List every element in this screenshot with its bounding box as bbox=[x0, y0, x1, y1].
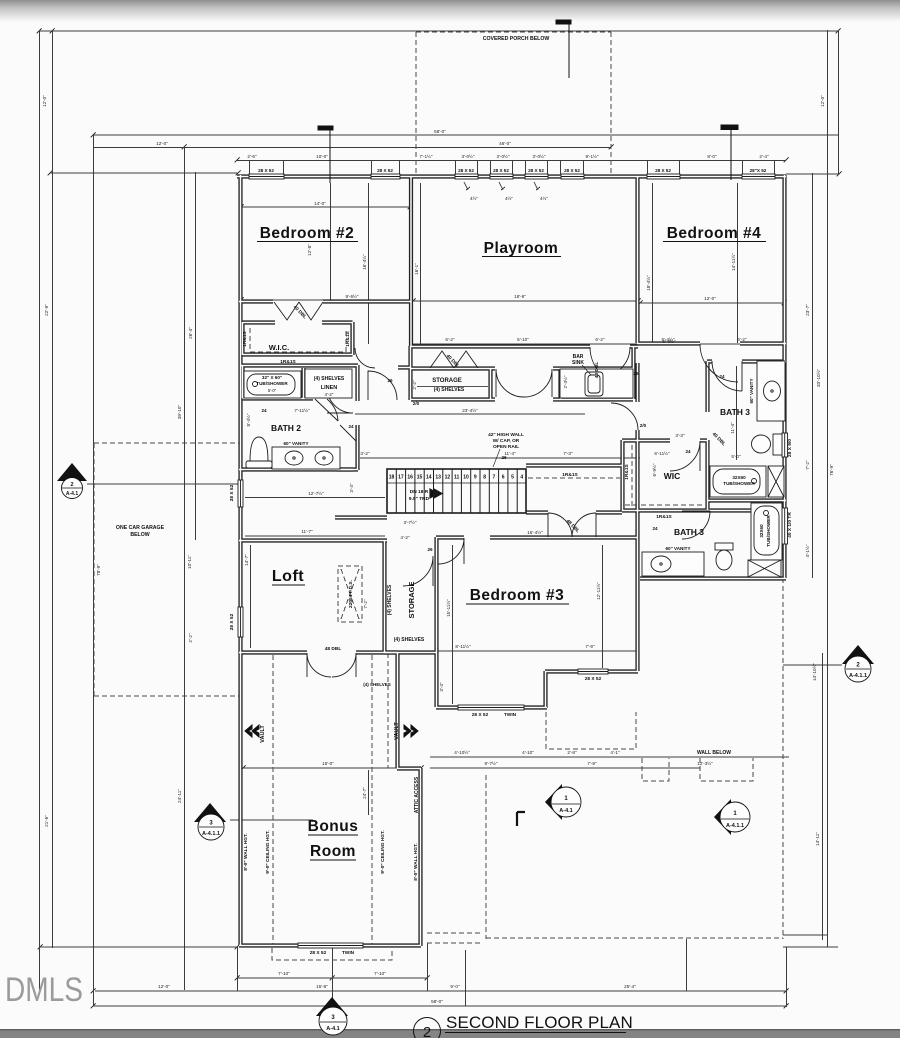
svg-text:9'-0" CEILING HGT.: 9'-0" CEILING HGT. bbox=[380, 830, 386, 873]
svg-text:11'-4": 11'-4" bbox=[504, 451, 516, 456]
dashed pds diagonals bbox=[341, 569, 359, 619]
dim line bottom 58-0 bbox=[93, 1005, 786, 1007]
svg-text:60" VANITY: 60" VANITY bbox=[665, 546, 690, 551]
dim line bottom 12-0 15-8 row bbox=[95, 990, 786, 992]
dashed bonus nook vertical bbox=[387, 653, 389, 768]
dim interior vertical bedroom4 14-11 bbox=[737, 183, 739, 343]
door arc loft bonus double bbox=[307, 653, 356, 677]
door arc wic right bbox=[670, 441, 700, 471]
svg-text:A-4.1: A-4.1 bbox=[326, 1026, 339, 1032]
svg-text:7'-9": 7'-9" bbox=[585, 644, 595, 649]
dim line left fourth vertical bbox=[184, 146, 186, 990]
svg-text:8: 8 bbox=[483, 475, 486, 481]
svg-text:1R&1S: 1R&1S bbox=[242, 330, 248, 346]
svg-text:BATH 2: BATH 2 bbox=[271, 423, 301, 433]
svg-text:24'-7": 24'-7" bbox=[362, 787, 367, 799]
svg-text:28 X 52: 28 X 52 bbox=[258, 168, 274, 173]
svg-text:A-4.1: A-4.1 bbox=[66, 491, 78, 497]
dim line right horizontal at wall top bbox=[786, 173, 839, 175]
svg-text:28 X 52: 28 X 52 bbox=[655, 168, 671, 173]
svg-text:DMLS: DMLS bbox=[5, 971, 83, 1009]
window leader marks playroom bbox=[464, 182, 540, 190]
fixture vanity bath3 top bbox=[757, 361, 785, 421]
dim line left second vertical bbox=[52, 30, 54, 948]
door arc bedroom3 entry bbox=[438, 538, 464, 564]
svg-text:Bedroom #3: Bedroom #3 bbox=[470, 587, 565, 604]
door arc hall closet 48dbl bbox=[548, 513, 596, 537]
stairs dn arrow bbox=[430, 489, 442, 498]
dim interior vertical bedroom3 12-11 bbox=[602, 545, 604, 668]
dim vertical bath3top 11-4 bbox=[736, 366, 738, 460]
svg-text:12'-0": 12'-0" bbox=[820, 95, 825, 107]
svg-text:14'-11½": 14'-11½" bbox=[730, 253, 736, 271]
dim line right corner vertical bbox=[838, 30, 840, 174]
dim line marker leader right bbox=[783, 664, 842, 666]
svg-text:28 X 52: 28 X 52 bbox=[493, 168, 509, 173]
door bath2 inner diagonal bbox=[340, 425, 356, 441]
svg-text:A-4.1: A-4.1 bbox=[559, 808, 572, 814]
svg-text:4'-2": 4'-2" bbox=[325, 392, 334, 397]
door arc storage mid bbox=[403, 556, 433, 586]
dashed garage left bbox=[93, 443, 95, 696]
svg-text:2'-2": 2'-2" bbox=[412, 380, 417, 390]
svg-text:18: 18 bbox=[389, 475, 395, 481]
door arc bedroom4 hall bbox=[700, 344, 738, 382]
svg-text:10'-0": 10'-0" bbox=[316, 154, 328, 159]
svg-text:3'-2": 3'-2" bbox=[360, 451, 370, 456]
svg-text:26: 26 bbox=[427, 547, 433, 552]
match line mark lower center bbox=[517, 812, 525, 826]
svg-text:28 X 52: 28 X 52 bbox=[528, 168, 544, 173]
svg-text:SINK: SINK bbox=[572, 360, 584, 366]
svg-text:2'-4": 2'-4" bbox=[759, 154, 769, 159]
svg-text:7'-11½": 7'-11½" bbox=[294, 407, 310, 413]
dashed wic b2 shelf bbox=[250, 328, 346, 352]
svg-text:WALL BELOW: WALL BELOW bbox=[697, 750, 731, 756]
svg-text:23'-4½": 23'-4½" bbox=[462, 407, 478, 413]
dashed garage bottom bbox=[94, 695, 239, 697]
svg-text:A-4.1.1: A-4.1.1 bbox=[849, 673, 867, 679]
dashed covered porch left bbox=[415, 32, 417, 174]
svg-text:28 X 52: 28 X 52 bbox=[377, 168, 393, 173]
dim line playroom 18-9 bbox=[413, 300, 638, 302]
svg-text:26'-4": 26'-4" bbox=[188, 327, 193, 339]
svg-text:58'-0": 58'-0" bbox=[434, 129, 446, 134]
svg-text:3'-0½": 3'-0½" bbox=[462, 153, 475, 159]
svg-text:12'-0": 12'-0" bbox=[42, 95, 47, 107]
door arc b2 hall bbox=[368, 371, 397, 400]
dashed bonus ceiling break right bbox=[371, 655, 373, 944]
fixture linen closet bbox=[305, 369, 352, 398]
dim line right 76-9 vertical bbox=[827, 30, 829, 947]
dashed garage top bbox=[94, 442, 239, 444]
svg-text:12: 12 bbox=[445, 475, 451, 481]
dim interior vertical bedroom3 15-11 bbox=[452, 545, 454, 704]
fixture tub bath3 bottom vertical bbox=[751, 503, 782, 560]
dashed right lower small lines bbox=[427, 932, 480, 934]
svg-text:8'-11½": 8'-11½" bbox=[455, 643, 471, 649]
window bedroom3 twin bbox=[458, 705, 524, 710]
svg-text:12'-0": 12'-0" bbox=[704, 296, 716, 301]
svg-text:4: 4 bbox=[520, 475, 523, 481]
window b2 w2 bbox=[371, 174, 400, 179]
svg-text:W/ CAP, OR: W/ CAP, OR bbox=[493, 438, 520, 444]
svg-text:5'-0": 5'-0" bbox=[268, 388, 277, 393]
dashed wall below notch2 bbox=[700, 758, 753, 781]
svg-text:18'-4½": 18'-4½" bbox=[645, 275, 651, 291]
svg-text:STORAGE: STORAGE bbox=[432, 378, 462, 384]
svg-text:2: 2 bbox=[70, 482, 73, 488]
svg-text:4'-10½": 4'-10½" bbox=[454, 749, 470, 755]
svg-text:3'-4": 3'-4" bbox=[439, 682, 444, 692]
svg-text:ATTIC ACCESS: ATTIC ACCESS bbox=[414, 776, 420, 813]
svg-text:10'-11": 10'-11" bbox=[187, 555, 192, 569]
svg-text:24: 24 bbox=[719, 374, 725, 379]
svg-text:28"X 52: 28"X 52 bbox=[750, 168, 767, 173]
svg-text:6: 6 bbox=[502, 475, 505, 481]
dim line bonus 15-0 bbox=[243, 767, 421, 769]
svg-text:28 X 52: 28 X 52 bbox=[472, 712, 489, 718]
svg-text:6'-2": 6'-2" bbox=[737, 337, 747, 342]
svg-text:STORAGE: STORAGE bbox=[407, 582, 416, 619]
svg-text:16'-1": 16'-1" bbox=[414, 263, 419, 275]
section marker 3 A-4.1 bottom bbox=[316, 997, 348, 1035]
svg-text:60" VANITY: 60" VANITY bbox=[749, 378, 754, 403]
dim line hall upper row bbox=[413, 343, 638, 345]
dim line bottom left bonus bbox=[40, 946, 237, 948]
dim line right lower 14-11 vertical bbox=[822, 653, 824, 940]
vault arrow left bbox=[245, 725, 266, 743]
svg-text:TUB/SHOWER: TUB/SHOWER bbox=[256, 381, 288, 386]
dim ext bonus corner down bbox=[237, 947, 239, 991]
fixture tub bath3 top bbox=[710, 466, 766, 497]
svg-text:5'-0": 5'-0" bbox=[731, 454, 741, 459]
door bifold storage top bbox=[430, 351, 478, 368]
dim ext bedroom3 down bbox=[427, 943, 429, 991]
svg-text:24: 24 bbox=[348, 424, 354, 429]
svg-text:VAULT: VAULT bbox=[260, 725, 266, 743]
svg-text:76'-9": 76'-9" bbox=[829, 464, 834, 476]
vault arrow right bbox=[394, 722, 418, 740]
svg-text:7'-9": 7'-9" bbox=[587, 761, 597, 766]
dim ext bottom x465 bbox=[465, 950, 467, 1006]
svg-text:(4) SHELVES: (4) SHELVES bbox=[434, 387, 465, 393]
dim ext bonus mid down bbox=[332, 947, 334, 1004]
svg-text:BATH 3: BATH 3 bbox=[720, 407, 750, 417]
svg-text:28 X 9/0: 28 X 9/0 bbox=[787, 439, 793, 457]
svg-text:11'-7": 11'-7" bbox=[301, 529, 313, 534]
svg-text:9'-1½": 9'-1½" bbox=[586, 153, 599, 159]
svg-text:22054 P.D.S.: 22054 P.D.S. bbox=[348, 580, 354, 608]
svg-text:32X60: 32X60 bbox=[759, 524, 764, 538]
dim interior vertical bonus 24-7 bbox=[368, 770, 370, 815]
window left wall w2 bbox=[238, 607, 243, 637]
svg-text:2: 2 bbox=[423, 1024, 431, 1038]
svg-text:2'-8": 2'-8" bbox=[567, 750, 577, 755]
svg-text:7'-10": 7'-10" bbox=[278, 971, 290, 976]
svg-text:3'-0½": 3'-0½" bbox=[533, 153, 546, 159]
svg-text:8'-0" WALL HGT.: 8'-0" WALL HGT. bbox=[413, 843, 419, 880]
svg-text:4'-10": 4'-10" bbox=[522, 750, 534, 755]
fixture toilet bath3 bottom bbox=[715, 543, 733, 550]
dim line bottom right hook2 bbox=[783, 946, 838, 948]
door arc playroom hall bbox=[590, 347, 630, 385]
svg-text:15'-0": 15'-0" bbox=[322, 761, 334, 766]
dim line bedroom4 12-0 bbox=[640, 302, 784, 304]
stairs rail inner line bbox=[387, 482, 526, 484]
dim line bottom 7-10 row bbox=[237, 977, 427, 979]
svg-text:Loft: Loft bbox=[272, 568, 304, 585]
svg-text:3'-3": 3'-3" bbox=[675, 433, 685, 438]
svg-text:13: 13 bbox=[435, 475, 441, 481]
svg-text:28 X 52: 28 X 52 bbox=[564, 168, 580, 173]
svg-text:LINEN: LINEN bbox=[321, 385, 338, 391]
svg-text:2/0: 2/0 bbox=[640, 423, 647, 428]
dashed wall below bottom bbox=[486, 937, 783, 939]
door arc bath3 bottom bbox=[682, 511, 710, 539]
dashed bonus ceiling break left bbox=[272, 655, 274, 944]
svg-text:ONE CAR GARAGE: ONE CAR GARAGE bbox=[116, 525, 165, 531]
dashed wall below notch bbox=[642, 758, 669, 781]
dim ext right bottom down bbox=[786, 947, 788, 1007]
svg-text:BELOW: BELOW bbox=[130, 532, 149, 538]
svg-text:4'-1": 4'-1" bbox=[610, 750, 620, 755]
dim interior vertical playroom right 18-4 bbox=[652, 183, 654, 343]
svg-text:9'-6½": 9'-6½" bbox=[346, 293, 359, 299]
fixture linen xbox bath3 top bbox=[768, 466, 784, 497]
dim line bottom right 14-11 hook bbox=[783, 934, 827, 936]
svg-text:TWIN: TWIN bbox=[504, 712, 517, 718]
svg-text:(4) SHELVES: (4) SHELVES bbox=[314, 376, 345, 382]
match line mark left bbox=[318, 126, 333, 183]
svg-text:6'-11½": 6'-11½" bbox=[654, 450, 670, 456]
fixture vanity bath3 bottom bbox=[642, 552, 704, 576]
svg-text:8'-0": 8'-0" bbox=[707, 154, 717, 159]
dim interior vertical loft 14-7 bbox=[250, 545, 252, 648]
svg-text:24: 24 bbox=[652, 526, 658, 531]
dim line marker leader bonus bbox=[230, 819, 313, 821]
dim line right 23-7 vertical bbox=[812, 173, 814, 578]
svg-text:12'-7½": 12'-7½" bbox=[308, 490, 324, 496]
window bedroom3 side bbox=[578, 669, 608, 674]
dim line bedroom2 9-6 bbox=[241, 299, 410, 301]
dim line wall below row 4-10 bbox=[430, 756, 789, 758]
svg-text:1R&1S: 1R&1S bbox=[280, 359, 296, 365]
svg-text:78'-9": 78'-9" bbox=[96, 564, 101, 576]
svg-text:46'-0": 46'-0" bbox=[499, 141, 511, 146]
door arc hall double mid bbox=[496, 369, 552, 397]
svg-text:14'-7": 14'-7" bbox=[244, 554, 249, 566]
stairs treads bbox=[396, 469, 517, 513]
svg-text:OPEN RAIL: OPEN RAIL bbox=[493, 444, 519, 450]
svg-text:14'-11": 14'-11" bbox=[815, 832, 820, 846]
top gray fade bar bbox=[0, 0, 900, 22]
svg-text:Room: Room bbox=[310, 843, 356, 860]
svg-text:3'-0½": 3'-0½" bbox=[497, 153, 510, 159]
dashed right lower small line2 bbox=[427, 942, 480, 944]
svg-text:60" VANITY: 60" VANITY bbox=[283, 441, 308, 446]
svg-text:26: 26 bbox=[633, 371, 639, 376]
svg-text:(4) SHELVES: (4) SHELVES bbox=[363, 682, 390, 687]
svg-text:16'-4½": 16'-4½" bbox=[527, 529, 543, 535]
dim line left third vertical bbox=[93, 134, 95, 1006]
door arc bedroom2 bifold bbox=[274, 302, 323, 320]
dim line left outer vertical bbox=[39, 30, 41, 990]
svg-text:25'-4": 25'-4" bbox=[624, 984, 636, 989]
dashed covered porch top bbox=[416, 31, 611, 33]
door arc bath3 top bbox=[712, 361, 742, 391]
dim line top horizontal full bbox=[39, 30, 838, 32]
svg-text:VAULT: VAULT bbox=[394, 722, 400, 740]
svg-text:18'-9": 18'-9" bbox=[514, 294, 526, 299]
svg-text:9'-0" CEILING HGT.: 9'-0" CEILING HGT. bbox=[265, 830, 271, 873]
svg-text:9: 9 bbox=[474, 475, 477, 481]
svg-text:28 X 52: 28 X 52 bbox=[229, 484, 235, 501]
svg-text:4½": 4½" bbox=[540, 195, 548, 201]
dashed wall below vertical left bbox=[485, 775, 487, 939]
svg-text:4'-1½": 4'-1½" bbox=[804, 544, 810, 557]
window right wall 40x10 bbox=[782, 508, 788, 544]
dim line bedroom2 14-0 bbox=[241, 206, 410, 208]
svg-text:5'-10": 5'-10" bbox=[517, 337, 529, 342]
dim line left fifth vertical bbox=[195, 172, 197, 540]
dashed wall below vertical right bbox=[782, 578, 784, 939]
svg-text:15: 15 bbox=[417, 475, 423, 481]
fixture bar sink counter bbox=[560, 369, 633, 398]
window playroom w1 bbox=[455, 174, 478, 179]
dim line loft 12-7 bbox=[245, 497, 385, 499]
fixture xbox bath3 bottom bbox=[748, 560, 781, 577]
svg-text:TUB/SHOWER: TUB/SHOWER bbox=[766, 515, 771, 547]
svg-text:WIC: WIC bbox=[664, 471, 681, 481]
dim line 22-9 left extension bbox=[50, 172, 238, 174]
svg-text:24: 24 bbox=[261, 408, 267, 413]
window playroom w3 bbox=[525, 174, 548, 179]
svg-text:7: 7 bbox=[493, 475, 496, 481]
svg-text:Bonus: Bonus bbox=[308, 818, 359, 835]
dashed bedroom3 SE box bbox=[546, 712, 636, 749]
svg-text:8'-0" WALL HGT.: 8'-0" WALL HGT. bbox=[243, 833, 249, 870]
window playroom w2 bbox=[490, 174, 513, 179]
svg-text:23'-7": 23'-7" bbox=[805, 304, 810, 316]
svg-text:32X60: 32X60 bbox=[732, 475, 746, 480]
svg-text:28 X 52: 28 X 52 bbox=[310, 950, 327, 956]
svg-text:3'-4": 3'-4" bbox=[349, 483, 354, 493]
svg-text:DN 18 R: DN 18 R bbox=[410, 489, 429, 495]
svg-text:58'-0": 58'-0" bbox=[431, 999, 443, 1004]
svg-text:6'-0½": 6'-0½" bbox=[663, 338, 676, 344]
svg-text:6'-9½": 6'-9½" bbox=[651, 463, 657, 476]
dim line bath corridor 23-4 bbox=[355, 413, 585, 415]
fixture toilet bath3 top bbox=[773, 434, 782, 455]
svg-text:10: 10 bbox=[463, 475, 469, 481]
svg-text:12'-8": 12'-8" bbox=[307, 244, 312, 256]
svg-text:2/0: 2/0 bbox=[413, 401, 420, 406]
fixture vanity bath2 bbox=[272, 447, 340, 469]
svg-text:TWIN: TWIN bbox=[342, 950, 355, 956]
svg-text:15'-11½": 15'-11½" bbox=[445, 599, 451, 617]
svg-text:(4) SHELVES: (4) SHELVES bbox=[394, 637, 425, 643]
svg-text:16: 16 bbox=[407, 475, 413, 481]
svg-text:24'-11": 24'-11" bbox=[177, 789, 182, 803]
svg-text:14'-0": 14'-0" bbox=[314, 201, 326, 206]
svg-text:4'-2": 4'-2" bbox=[400, 535, 410, 540]
svg-text:Playroom: Playroom bbox=[484, 240, 559, 257]
svg-text:4½": 4½" bbox=[470, 195, 478, 201]
window b2 w1 bbox=[249, 174, 284, 179]
svg-text:9'-7½": 9'-7½" bbox=[485, 760, 498, 766]
match line mark top center bbox=[556, 20, 571, 78]
dim interior vertical playroom 16-1 bbox=[420, 183, 422, 344]
svg-text:Bedroom #4: Bedroom #4 bbox=[667, 225, 762, 242]
svg-text:Bedroom #2: Bedroom #2 bbox=[260, 225, 355, 242]
dim interior vertical b2 16-4 bbox=[368, 183, 370, 344]
svg-text:2'-3½": 2'-3½" bbox=[562, 375, 568, 388]
svg-text:17: 17 bbox=[398, 475, 404, 481]
dim line loft 11-7 bbox=[245, 535, 385, 537]
dashed covered porch right bbox=[610, 32, 612, 174]
title circle 2 bbox=[414, 1018, 441, 1038]
svg-text:TUB/SHOWER: TUB/SHOWER bbox=[723, 481, 755, 486]
window right wall 28x90 bbox=[782, 433, 788, 457]
svg-text:14'-10½": 14'-10½" bbox=[811, 663, 817, 681]
window bedroom4 w1 bbox=[647, 174, 680, 179]
bottom gray bar bbox=[0, 1030, 900, 1038]
section marker 2 A-4.1.1 right bbox=[842, 645, 874, 682]
svg-text:12'-0": 12'-0" bbox=[158, 984, 170, 989]
svg-text:42" HIGH WALL: 42" HIGH WALL bbox=[488, 432, 524, 438]
svg-text:22'-9": 22'-9" bbox=[44, 304, 49, 316]
svg-text:40 X 1/0 TR: 40 X 1/0 TR bbox=[787, 512, 793, 538]
svg-text:24: 24 bbox=[685, 449, 691, 454]
door arc wic b2 top bbox=[355, 348, 375, 368]
svg-text:4½": 4½" bbox=[505, 195, 513, 201]
svg-text:9'-0": 9'-0" bbox=[450, 984, 460, 989]
svg-text:28 X 52: 28 X 52 bbox=[585, 676, 602, 682]
svg-text:11'-4": 11'-4" bbox=[730, 422, 735, 434]
svg-text:48 DBL: 48 DBL bbox=[325, 646, 342, 652]
dim line bedroom3 lower 8-11 bbox=[436, 650, 638, 652]
svg-text:2'-2": 2'-2" bbox=[188, 633, 193, 643]
svg-text:SECOND FLOOR PLAN: SECOND FLOOR PLAN bbox=[446, 1013, 633, 1032]
door arc bath2 bbox=[327, 387, 353, 413]
svg-text:12'-3½": 12'-3½" bbox=[697, 760, 713, 766]
dim line top window row bbox=[237, 160, 786, 162]
section marker 2 A-4.1 left bbox=[57, 463, 87, 499]
svg-text:5: 5 bbox=[511, 475, 514, 481]
dim line 58-0 top bbox=[93, 134, 838, 136]
stairs outline bbox=[387, 469, 526, 513]
door arc corridor 2-0 bbox=[611, 403, 638, 430]
svg-text:14: 14 bbox=[426, 475, 432, 481]
svg-text:(4) SHELVES: (4) SHELVES bbox=[387, 584, 393, 615]
match line mark top right bbox=[721, 125, 738, 180]
svg-text:1R&1S: 1R&1S bbox=[656, 514, 672, 520]
svg-text:40 DBL: 40 DBL bbox=[594, 362, 600, 379]
dim ext x686 down bbox=[686, 939, 688, 991]
svg-text:7'-2": 7'-2" bbox=[805, 460, 810, 470]
dim line marker leader left bbox=[87, 483, 238, 485]
dashed pds box bbox=[338, 566, 362, 622]
svg-text:7'-2": 7'-2" bbox=[363, 599, 368, 609]
dashed hall closet shelf bbox=[528, 477, 620, 479]
svg-text:28 X 52: 28 X 52 bbox=[229, 613, 235, 630]
section marker 1 A-4.1.1 bbox=[714, 799, 750, 835]
fixture storage divider bbox=[417, 386, 488, 388]
svg-text:6'-2": 6'-2" bbox=[595, 337, 605, 342]
svg-text:26: 26 bbox=[387, 378, 393, 383]
svg-text:3'-7½": 3'-7½" bbox=[404, 519, 417, 525]
